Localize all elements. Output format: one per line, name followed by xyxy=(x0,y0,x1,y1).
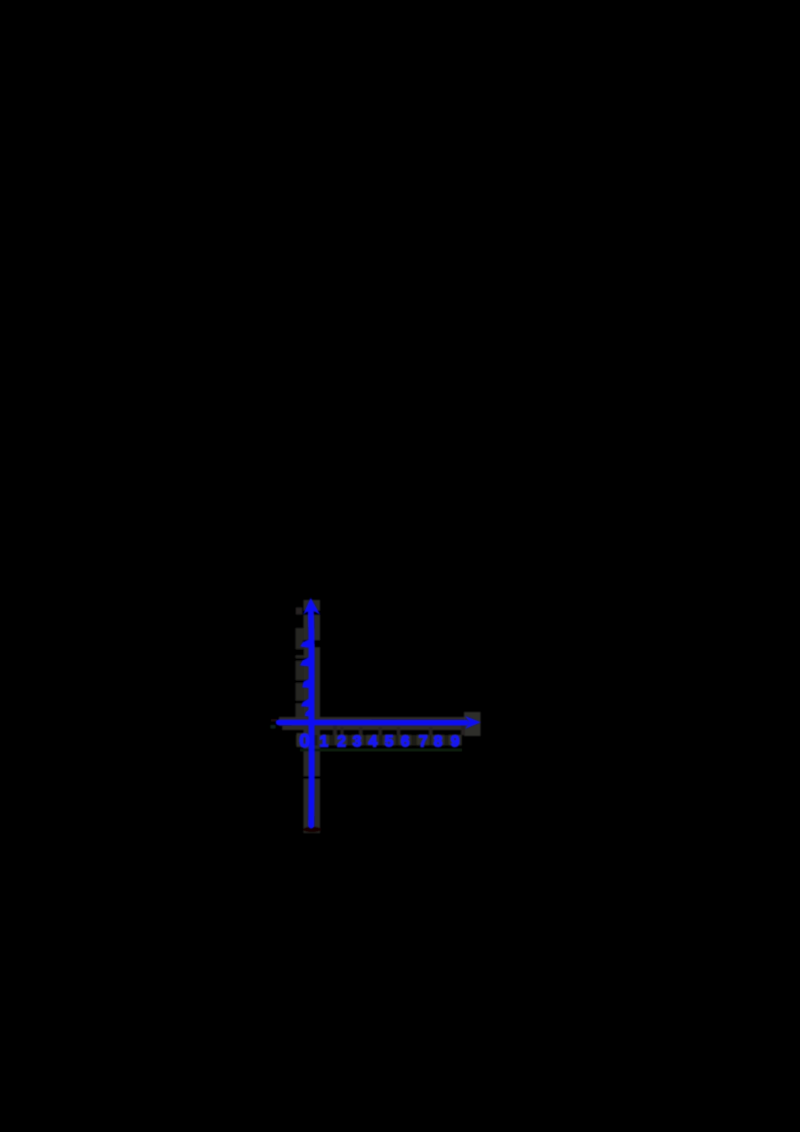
blue y tick 2 xyxy=(302,679,310,689)
gray halo digit 6 xyxy=(399,735,411,745)
gray shadow band of x-axis xyxy=(279,717,466,730)
black patch left stripe below tick 4 xyxy=(295,649,304,656)
black notch on right stripe tick 4 xyxy=(314,640,321,648)
svg-text:8: 8 xyxy=(434,734,443,751)
blue y tick 1 xyxy=(301,698,310,707)
faint teal mark left of x-axis start xyxy=(271,725,276,729)
gray minor tick below x-axis at x=342 xyxy=(341,727,344,735)
gray halo digit 9 xyxy=(449,735,461,745)
svg-text:4: 4 xyxy=(368,734,377,751)
black notch at y-arrowhead barbs xyxy=(303,611,321,616)
gray halo digit 3 xyxy=(352,735,363,745)
dark red smudge at bottom of y-axis xyxy=(303,827,321,833)
gray halo digit 8 xyxy=(432,735,444,745)
gray shadow band of y-axis xyxy=(304,600,321,833)
gray minor tick below x-axis at x=462 xyxy=(461,725,465,735)
blue y tick 4 xyxy=(300,639,310,648)
gray patch behind x-arrowhead xyxy=(464,712,481,736)
x-axis blue shaft xyxy=(279,720,466,726)
gray halo digit 4 xyxy=(367,735,379,745)
gray tick-region extension left of y-axis xyxy=(296,628,305,718)
blue y tick small above origin xyxy=(305,709,310,717)
svg-text:0: 0 xyxy=(299,730,309,751)
y-axis blue arrowhead xyxy=(303,598,320,615)
svg-text:9: 9 xyxy=(451,734,460,751)
svg-text:2: 2 xyxy=(337,734,346,751)
blue y tick 3 xyxy=(300,657,310,667)
black notch on y band at tick 3 xyxy=(295,658,309,661)
black notch on y band at tick 4 xyxy=(303,640,321,644)
gray minor tick below x-axis at x=380 xyxy=(379,727,383,735)
gray minor tick below x-axis at x=398 xyxy=(397,727,401,735)
faint red mark left of x-axis start xyxy=(271,719,277,722)
gray halo digit 5 xyxy=(383,735,395,745)
black notch on y band at tick 2 xyxy=(295,680,309,683)
svg-text:5: 5 xyxy=(385,734,394,751)
gray halo digit 2 xyxy=(335,735,347,745)
svg-text:3: 3 xyxy=(353,734,362,751)
svg-text:7: 7 xyxy=(419,734,428,751)
gray halo digit 0 xyxy=(297,733,313,747)
black notch on x band near left end xyxy=(279,726,283,731)
gray halo digit 7 xyxy=(417,735,429,745)
black notch on y band at tick 1 xyxy=(295,701,309,704)
gray patch left of y-arrowhead xyxy=(296,608,302,615)
gray band behind digit labels xyxy=(296,735,462,746)
y-axis blue shaft xyxy=(311,607,312,826)
gray minor tick below x-axis at x=335 xyxy=(333,725,337,735)
svg-text:6: 6 xyxy=(401,734,410,751)
svg-text:1: 1 xyxy=(319,734,328,751)
dark underline below digits xyxy=(300,749,462,752)
black notch on y band below origin xyxy=(303,776,321,779)
gray halo digit 1 xyxy=(318,735,329,745)
gray minor tick below x-axis at x=430 xyxy=(429,727,433,735)
x-axis blue arrowhead xyxy=(465,716,481,729)
gray minor tick below x-axis at x=360 xyxy=(359,727,363,735)
